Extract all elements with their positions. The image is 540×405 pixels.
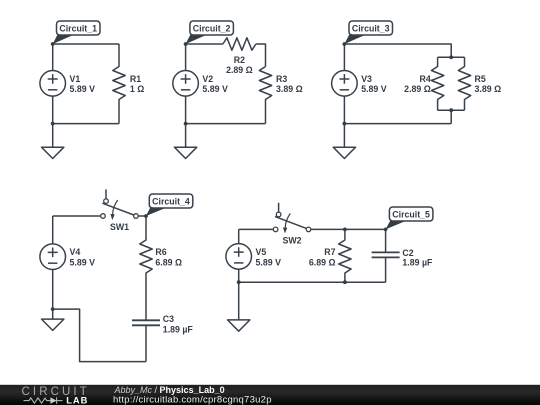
svg-text:1.89 µF: 1.89 µF (402, 257, 433, 267)
wire V2 top stub (185, 44, 187, 71)
svg-text:3.89 Ω: 3.89 Ω (276, 84, 303, 94)
wire V4 top stub (52, 216, 54, 244)
svg-text:R2: R2 (234, 55, 245, 65)
label Circuit_2 (186, 21, 234, 44)
label Circuit_1 (53, 21, 100, 44)
resistor R1 (113, 44, 125, 124)
wire top C4 (53, 215, 101, 217)
resistor R6 (140, 216, 152, 320)
svg-text:Circuit_4: Circuit_4 (152, 197, 190, 207)
svg-text:http://circuitlab.com/cpr8cgnq: http://circuitlab.com/cpr8cgnq73u2p (113, 395, 272, 405)
ground C4 (42, 309, 64, 330)
node C5 R7 top (343, 228, 347, 232)
svg-text:Circuit_5: Circuit_5 (392, 210, 430, 220)
component value texts (70, 55, 502, 334)
svg-text:SW2: SW2 (282, 236, 301, 246)
svg-text:R4: R4 (420, 74, 431, 84)
node C2 top (184, 42, 188, 46)
svg-text:V4: V4 (70, 247, 81, 257)
node C3 branch top (449, 55, 453, 59)
svg-text:3.89 Ω: 3.89 Ω (475, 84, 502, 94)
svg-text:Circuit_3: Circuit_3 (352, 24, 390, 34)
wire V1 bottom stub (52, 96, 54, 124)
svg-text:R6: R6 (155, 247, 166, 257)
switch SW2 (273, 203, 311, 234)
ground C1 (42, 124, 64, 159)
svg-text:5.89 V: 5.89 V (70, 258, 96, 268)
svg-text:R3: R3 (276, 74, 287, 84)
wire SW1 to node (138, 215, 146, 217)
node C5 bottom left (237, 280, 241, 284)
wire bottom C4 (53, 309, 146, 362)
svg-text:6.89 Ω: 6.89 Ω (309, 257, 336, 267)
wire branch top C3 (438, 56, 465, 58)
voltage source V4 (40, 244, 66, 270)
wire V2 bottom stub (185, 96, 187, 124)
svg-text:V1: V1 (70, 74, 81, 84)
footer bar (0, 385, 540, 405)
svg-text:SW1: SW1 (110, 222, 129, 232)
node C5 R7 bottom (343, 280, 347, 284)
resistor R4 (431, 57, 443, 110)
node C3 bottom (343, 122, 347, 126)
svg-text:5.89 V: 5.89 V (361, 84, 387, 94)
wire branch bottom C3 (438, 109, 465, 111)
svg-text:R1: R1 (130, 74, 141, 84)
node C4 bottom (51, 307, 55, 311)
wire C3 bottom stub (145, 325, 147, 361)
svg-text:5.89 V: 5.89 V (256, 257, 282, 267)
wire SW2 to R7/C2 (311, 228, 386, 230)
voltage source V3 (332, 71, 358, 97)
capacitor C3 (132, 320, 160, 325)
wire V5 bottom stub (238, 269, 240, 282)
svg-text:V2: V2 (202, 74, 213, 84)
svg-text:R7: R7 (324, 247, 335, 257)
svg-text:V5: V5 (256, 247, 267, 257)
svg-text:R5: R5 (475, 74, 486, 84)
svg-text:Circuit_2: Circuit_2 (193, 24, 231, 34)
svg-text:Circuit_1: Circuit_1 (59, 24, 97, 34)
wire bottom C3 (344, 123, 451, 125)
wire bottom C5 (239, 281, 386, 283)
node C1 bottom (51, 122, 55, 126)
wire branch join C3 (450, 110, 452, 123)
resistor R3 (259, 67, 271, 124)
wire V3 top stub (343, 44, 345, 71)
node C5 C2 top (384, 228, 388, 232)
ground C5 (228, 282, 250, 331)
node C4 top (144, 214, 148, 218)
label Circuit_5 (386, 207, 433, 229)
capacitor C2 (372, 229, 400, 282)
svg-text:1.89 µF: 1.89 µF (163, 324, 194, 334)
wire bottom C1 (53, 123, 119, 125)
svg-text:2.89 Ω: 2.89 Ω (404, 84, 431, 94)
svg-text:C3: C3 (163, 314, 174, 324)
voltage source V2 (173, 71, 199, 97)
wire bottom C2 (186, 123, 266, 125)
svg-text:LAB: LAB (66, 395, 88, 405)
label Circuit_3 (344, 21, 392, 44)
node C1 top (51, 42, 55, 46)
wire V4 bottom stub (52, 270, 54, 310)
wire top C5-left (239, 228, 274, 230)
resistor R7 (339, 229, 351, 282)
resistor R2 (223, 38, 256, 50)
footer logo resistor-diode squiggle (24, 397, 63, 403)
wire top C3 (344, 44, 451, 57)
switch SW1 (101, 189, 139, 220)
svg-text:C2: C2 (402, 248, 413, 258)
wire V3 bottom stub (343, 96, 345, 124)
node C3 top (343, 42, 347, 46)
svg-text:2.89 Ω: 2.89 Ω (226, 65, 253, 75)
svg-text:1 Ω: 1 Ω (130, 84, 144, 94)
ground C3 (333, 124, 355, 159)
voltage source V1 (40, 71, 66, 97)
svg-text:5.89 V: 5.89 V (202, 84, 228, 94)
node C2 bottom (184, 122, 188, 126)
label Circuit_4 (146, 194, 193, 216)
svg-text:6.89 Ω: 6.89 Ω (155, 257, 182, 267)
resistor R5 (458, 57, 470, 110)
voltage source V5 (226, 244, 252, 270)
wire top C1 (53, 43, 119, 45)
ground C2 (174, 124, 196, 159)
node C3 branch bottom (449, 108, 453, 112)
wire V1 top stub (52, 44, 54, 71)
wire top C2-left (186, 43, 223, 45)
wire V5 top stub (238, 229, 240, 243)
wire top C2-right (256, 44, 266, 67)
svg-text:5.89 V: 5.89 V (70, 84, 96, 94)
svg-text:V3: V3 (361, 74, 372, 84)
